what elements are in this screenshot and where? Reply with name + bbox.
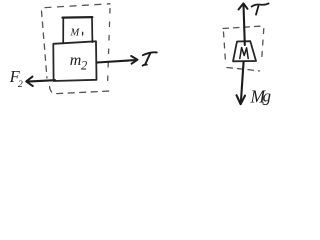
label T (top right) (252, 3, 269, 14)
label m2 (70, 52, 87, 72)
dashed boundary box right: top edge (223, 26, 263, 29)
block m2 (53, 41, 96, 81)
dashed boundary box left: right edge (108, 9, 111, 87)
label M1 (70, 27, 81, 38)
label M (trapezoid) (240, 48, 248, 59)
force F2 arrow (26, 77, 55, 87)
dashed boundary box left: top edge (45, 4, 110, 8)
label Mg (250, 86, 272, 106)
dashed boundary box right: right edge (262, 29, 264, 63)
weight Mg arrow (down) (237, 62, 246, 105)
dashed boundary box right: bottom edge (227, 68, 260, 72)
label T (left diagram) (143, 52, 157, 65)
dashed boundary box left: bottom edge (50, 87, 111, 94)
dashed boundary box right: left edge (224, 32, 226, 62)
svg-text:M: M (70, 27, 81, 38)
svg-text:g: g (263, 87, 272, 106)
label F2 (9, 67, 23, 90)
force T arrow (left diagram) (97, 56, 138, 64)
svg-text:2: 2 (81, 58, 87, 72)
block m1 (63, 17, 93, 43)
svg-text:m: m (70, 52, 82, 69)
mass M trapezoid (233, 41, 256, 61)
dashed boundary box left: left edge (42, 11, 48, 78)
tension T arrow (up, right diagram) (239, 3, 248, 45)
svg-text:2: 2 (18, 80, 23, 90)
